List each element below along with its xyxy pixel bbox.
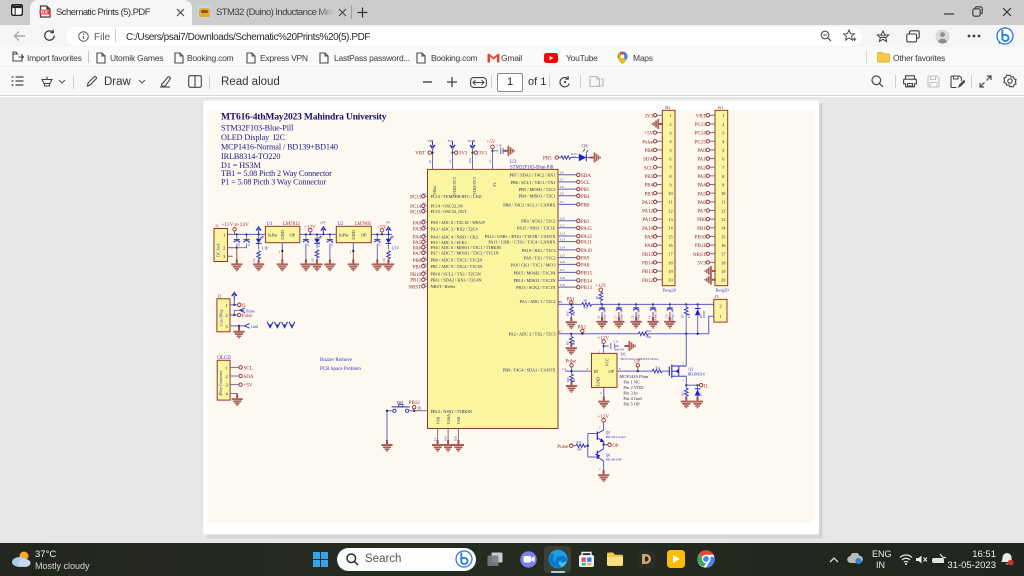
power flag +5V [491, 145, 495, 149]
svg-text:+12V: +12V [304, 224, 316, 230]
svg-text:L10: L10 [560, 217, 565, 221]
svg-text:+12V: +12V [595, 284, 607, 289]
svg-text:PB8 / T4C3 / SCL1 / CANRX: PB8 / T4C3 / SCL1 / CANRX [503, 202, 556, 207]
wire net L7 [558, 181, 577, 183]
port PA12 pin 12 [657, 209, 663, 211]
ground [238, 326, 240, 330]
wire stub [425, 221, 428, 223]
svg-text:PB12: PB12 [642, 279, 654, 284]
svg-text:Pulse: Pulse [557, 445, 569, 450]
svg-text:PB13: PB13 [581, 286, 593, 291]
svg-text:CPU: CPU [582, 145, 589, 149]
capacitor C10 4700uF [669, 303, 671, 305]
svg-text:PA4 / ADC 4 / NSS1 / CK2: PA4 / ADC 4 / NSS1 / CK2 [431, 235, 478, 240]
svg-text:R8: R8 [423, 224, 427, 228]
MCU U3 STM32F103 block [428, 169, 559, 428]
ground [348, 259, 359, 271]
svg-text:3V3: 3V3 [459, 152, 468, 157]
transistor Q6 BD140 [596, 451, 598, 459]
svg-text:Berg20: Berg20 [716, 288, 730, 293]
harpoon arrows row [267, 322, 295, 328]
wire [604, 343, 609, 353]
svg-text:PB9 / T4C4 / SDA1 / CANTX: PB9 / T4C4 / SDA1 / CANTX [503, 368, 557, 373]
right icons [871, 75, 884, 88]
ground [311, 259, 322, 271]
svg-text:PB5 / MOSI1 / T2C2: PB5 / MOSI1 / T2C2 [519, 187, 556, 192]
svg-text:Gnd: Gnd [251, 324, 258, 329]
svg-text:C19: C19 [497, 144, 503, 148]
svg-text:C1: C1 [237, 242, 241, 246]
ground [453, 440, 464, 452]
svg-text:R18: R18 [468, 157, 472, 163]
svg-text:10K: 10K [688, 313, 691, 318]
svg-text:PA2: PA2 [697, 166, 706, 171]
wire stub [425, 246, 428, 248]
svg-text:MCP1416 Plain: MCP1416 Plain [619, 374, 649, 379]
svg-text:2: 2 [720, 303, 722, 308]
svg-text:3V3: 3V3 [644, 114, 653, 119]
svg-text:OP: OP [361, 233, 367, 238]
svg-text:PB0: PB0 [413, 259, 422, 264]
svg-text:OP: OP [609, 369, 615, 374]
svg-text:L12: L12 [560, 232, 565, 236]
svg-text:PB10 / SCL2 / TX3 / T2C3N: PB10 / SCL2 / TX3 / T2C3N [431, 272, 481, 277]
resistor under flag [600, 291, 602, 294]
wire stub [425, 210, 428, 212]
wire OLCD pin4 to ground [230, 394, 237, 398]
transistor Q5 BD139 [596, 432, 598, 440]
svg-text:Pulse: Pulse [246, 308, 255, 313]
svg-text:PA5: PA5 [413, 241, 422, 246]
svg-text:B2: B2 [665, 105, 670, 110]
connector J1 [214, 229, 228, 262]
svg-text:R16: R16 [423, 275, 429, 279]
pdf toolbar [0, 68, 1024, 96]
svg-text:2: 2 [350, 250, 352, 254]
svg-text:R19: R19 [443, 435, 447, 441]
wire net L11 [558, 227, 577, 229]
svg-text:R8: R8 [584, 299, 588, 303]
port PA6 pin 11 [710, 201, 716, 203]
wire net L6 [558, 174, 577, 176]
capacitor C2 [244, 240, 250, 243]
svg-text:PB10: PB10 [695, 236, 707, 241]
resistor source-gnd [685, 385, 687, 388]
svg-text:PA8 / CK1 / T1C1 / MCO: PA8 / CK1 / T1C1 / MCO [511, 262, 556, 267]
svg-text:VSS: VSS [435, 416, 440, 424]
svg-text:PB5: PB5 [644, 175, 653, 180]
svg-text:NRST: NRST [408, 285, 421, 290]
wire OLCD pin1 + port SCL [230, 366, 239, 368]
connector B1 Berg20 [715, 110, 728, 285]
search pill [337, 548, 476, 571]
ground [253, 259, 264, 271]
store [578, 551, 595, 568]
svg-text:VBT: VBT [415, 152, 425, 157]
connector J2 Con 3Way [217, 299, 230, 332]
svg-text:1: 1 [669, 113, 671, 118]
wire J2 pin1 [230, 304, 238, 306]
port PB15 pin 17 [657, 253, 663, 255]
port NRST pin 17 [710, 253, 716, 255]
svg-text:4700uF/16V: 4700uF/16V [638, 309, 641, 322]
port PB4 pin 9 [657, 184, 663, 186]
port SCL pin 7 [657, 166, 663, 168]
port PA11 pin 13 [657, 218, 663, 220]
svg-text:PC15: PC15 [695, 140, 707, 145]
resistor R22 [638, 332, 648, 336]
svg-text:L12V: L12V [317, 239, 321, 247]
port PA15 [577, 226, 580, 229]
svg-text:PA7: PA7 [697, 210, 706, 215]
capacitor C11 [611, 343, 619, 349]
svg-text:R20: R20 [454, 435, 458, 441]
wire net L18 [558, 279, 577, 281]
svg-text:1K: 1K [573, 379, 576, 382]
svg-text:+5V: +5V [244, 384, 253, 389]
svg-text:PCB Space Problem: PCB Space Problem [320, 367, 361, 372]
svg-text:2: 2 [223, 246, 225, 251]
svg-text:L5V: L5V [392, 246, 400, 251]
resistor base [576, 444, 586, 448]
capacitor C6 4700uF [601, 303, 603, 305]
svg-text:10K: 10K [646, 335, 652, 339]
svg-text:PB3 / SCK1 / T2C2: PB3 / SCK1 / T2C2 [521, 219, 555, 224]
wire stub [425, 285, 428, 287]
port IL [238, 303, 241, 306]
svg-text:PC13 / TEMPER-RTC / LED: PC13 / TEMPER-RTC / LED [431, 194, 482, 199]
ground sideways [625, 341, 636, 351]
svg-text:VSS: VSS [456, 416, 461, 424]
wire stub [425, 236, 428, 238]
active tab [30, 0, 192, 25]
svg-text:+12V: +12V [598, 415, 610, 420]
harpoon Pulse [240, 308, 246, 313]
svg-text:MCP1416-Normal / BD139+BD140: MCP1416-Normal / BD139+BD140 [221, 143, 338, 152]
port PB5 [577, 187, 580, 190]
svg-text:1: 1 [226, 365, 228, 370]
svg-text:PB15: PB15 [642, 253, 654, 258]
svg-text:PB0 / ADC 8 / T3C3 / T1C2N: PB0 / ADC 8 / T3C3 / T1C2N [431, 258, 483, 263]
svg-text:PA15 / NSS1 / T2C1E: PA15 / NSS1 / T2C1E [517, 226, 556, 231]
wire U2 output rail [371, 233, 392, 235]
wire J2 pin2 [230, 314, 238, 316]
svg-text:Pin 1 NC: Pin 1 NC [623, 379, 640, 384]
wire stub [425, 252, 428, 254]
wire stub [425, 265, 428, 267]
capacitor C4 [327, 240, 333, 243]
svg-text:R9: R9 [423, 232, 427, 236]
svg-text:MT616-4thMay2023 Mahindra Univ: MT616-4thMay2023 Mahindra University [221, 112, 387, 123]
wire top stub [432, 148, 434, 169]
svg-text:L18: L18 [560, 276, 565, 280]
port PB4 [577, 194, 580, 197]
port PB10 pin 15 [710, 235, 716, 237]
wire net L5 [558, 203, 577, 205]
svg-text:R16: R16 [567, 311, 570, 316]
port PB8 pin 5 [657, 149, 663, 151]
svg-text:SDA: SDA [643, 158, 653, 163]
port 3V3 (second) [474, 151, 477, 154]
svg-text:L8: L8 [560, 185, 564, 189]
chat [520, 551, 537, 568]
port PB12 pin 20 [657, 279, 663, 281]
power flag +12V (driver) [602, 340, 606, 344]
port PA8 pin 16 [657, 244, 663, 246]
capacitor C7 4700uF [618, 303, 620, 305]
svg-text:PB11 / SDA2 / RX3 / T2C4N: PB11 / SDA2 / RX3 / T2C4N [431, 278, 482, 283]
harpoon Gnd [244, 324, 250, 329]
svg-text:PB0: PB0 [697, 218, 706, 223]
svg-text:NRST / ReSet: NRST / ReSet [431, 284, 456, 289]
port PB14 pin 18 [657, 261, 663, 263]
port PA15 pin 11 [657, 201, 663, 203]
svg-text:R4: R4 [423, 207, 427, 211]
svg-text:J2: J2 [218, 294, 222, 299]
wire net L16 [558, 263, 577, 265]
svg-text:PC14: PC14 [410, 205, 422, 210]
edge active [544, 546, 571, 573]
zoom controls [423, 81, 432, 83]
svg-text:PA5 / ADC 5 / SCK1: PA5 / ADC 5 / SCK1 [431, 240, 468, 245]
port PB13 pin 19 [657, 270, 663, 272]
capacitor C1 [234, 240, 240, 243]
svg-text:Berg20: Berg20 [663, 288, 677, 293]
svg-text:J1: J1 [215, 224, 219, 229]
svg-text:PA0: PA0 [413, 221, 422, 226]
svg-text:L1P: L1P [262, 246, 270, 251]
wire OLCD pin2 + port SDA [230, 375, 239, 377]
favourites bar [0, 47, 1024, 67]
svg-text:R6: R6 [559, 300, 563, 304]
svg-text:2: 2 [225, 313, 227, 318]
port PB3 [577, 219, 580, 222]
svg-text:PB7 / SDA1 / T4C2 / RX1: PB7 / SDA1 / T4C2 / RX1 [509, 173, 555, 178]
svg-text:SDA: SDA [244, 375, 254, 380]
svg-text:SDA: SDA [581, 174, 591, 179]
svg-text:Pin 3 In: Pin 3 In [623, 390, 638, 395]
svg-text:PA3: PA3 [413, 228, 422, 233]
svg-text:PA4: PA4 [413, 236, 422, 241]
svg-text:Con 3Way: Con 3Way [218, 309, 223, 326]
svg-text:DC Jack: DC Jack [216, 243, 221, 257]
svg-text:PA8: PA8 [581, 264, 590, 269]
port SDA [577, 173, 580, 176]
svg-text:PA1 / ADC 1 / T2C2: PA1 / ADC 1 / T2C2 [520, 299, 556, 304]
svg-text:2: 2 [722, 122, 724, 127]
wire net L15 [558, 257, 577, 259]
svg-text:PB5: PB5 [543, 157, 552, 162]
start [313, 552, 328, 567]
svg-text:U1: U1 [267, 222, 273, 227]
transistor Q1 IRLB8314 MOSFET [668, 367, 670, 376]
svg-text:PA1: PA1 [567, 297, 576, 302]
svg-text:PB14: PB14 [642, 262, 654, 267]
svg-text:PA3 / ADC 3 / RX2 / T2C4: PA3 / ADC 3 / RX2 / T2C4 [431, 226, 479, 231]
svg-text:R22: R22 [646, 329, 652, 333]
svg-text:10R: 10R [577, 448, 582, 452]
port PC15 pin 4 [710, 140, 716, 142]
wire net L14 [558, 249, 577, 251]
svg-text:PB5: PB5 [581, 188, 590, 193]
resistor gate [652, 369, 662, 373]
ground [231, 259, 242, 271]
svg-text:1: 1 [225, 303, 227, 308]
svg-text:PA7: PA7 [413, 252, 422, 257]
port PB5 pin 8 [657, 175, 663, 177]
svg-text:PA7 / ADC 7 / MOSI1 / T3C2 / T: PA7 / ADC 7 / MOSI1 / T3C2 / T1C1N [431, 251, 499, 256]
svg-text:4700uF/16V: 4700uF/16V [604, 309, 607, 322]
resistor R21 [561, 156, 571, 160]
capacitor C19 [493, 148, 507, 154]
svg-text:PA8: PA8 [645, 244, 654, 249]
resistor to ground under Pulse [570, 374, 574, 382]
regulator U2 LM7805 [336, 226, 371, 242]
svg-text:GND: GND [351, 230, 356, 239]
power flag +15V to 24V [233, 228, 237, 232]
svg-text:L9: L9 [560, 191, 564, 195]
port 3V3 (first) [455, 151, 458, 154]
svg-text:10K: 10K [573, 311, 576, 316]
svg-text:PC13: PC13 [695, 123, 707, 128]
svg-text:R18: R18 [567, 377, 570, 382]
svg-text:PA15: PA15 [642, 201, 653, 206]
svg-text:+15V to 24V: +15V to 24V [222, 222, 250, 228]
svg-text:L11: L11 [560, 224, 565, 228]
svg-text:4700uF/16V: 4700uF/16V [671, 309, 674, 322]
wire PA2 net [558, 316, 714, 334]
wire net L10 [558, 220, 577, 222]
pdf page [204, 101, 823, 539]
svg-text:PA9 / TX1 / T1C2: PA9 / TX1 / T1C2 [524, 256, 555, 261]
task view [487, 552, 503, 567]
port PA0 pin 5 [710, 149, 716, 151]
resistor to ground under PA1 [570, 304, 572, 306]
wire base rail [586, 434, 597, 458]
port 3V3 pin 1 [657, 114, 663, 116]
svg-text:L13: L13 [560, 237, 565, 241]
svg-text:OP: OP [290, 233, 296, 238]
svg-text:U2: U2 [338, 222, 344, 227]
LED L5V [386, 236, 394, 243]
wire stub [425, 273, 428, 275]
svg-text:PA9: PA9 [581, 257, 590, 262]
power arrow port 5V [386, 227, 391, 235]
wire switch left to ground [387, 411, 393, 444]
svg-text:C2: C2 [247, 242, 251, 246]
ground [372, 259, 383, 271]
svg-text:PB4: PB4 [581, 195, 590, 200]
svg-text:20: 20 [417, 406, 421, 410]
svg-text:IRLB8314-TO220: IRLB8314-TO220 [221, 152, 280, 161]
wire net L8 [558, 188, 577, 190]
wire stub [425, 227, 428, 229]
svg-text:IL: IL [704, 384, 709, 389]
wire source node [685, 384, 700, 386]
power arrow port 12V [321, 227, 326, 235]
ground (sideways) pin 2 [659, 123, 662, 125]
svg-text:5V: 5V [386, 221, 391, 225]
svg-text:OLED Display I2C: OLED Display I2C [221, 133, 286, 142]
explorer [606, 551, 624, 567]
port PB1 pin 14 [710, 227, 716, 229]
svg-text:L6: L6 [560, 171, 564, 175]
wire stub [425, 195, 428, 197]
wire stub [425, 259, 428, 261]
svg-text:+12V: +12V [598, 336, 610, 341]
svg-text:PA0: PA0 [697, 149, 706, 154]
ground (sideways) pin 19 [712, 270, 715, 272]
power arrow 3V3B [470, 141, 475, 149]
port PA12 [577, 234, 580, 237]
svg-text:U3: U3 [510, 160, 517, 165]
svg-text:4Way Connector: 4Way Connector [219, 370, 223, 396]
wire U1 to U2 rail [300, 233, 337, 235]
power arrow 3V3 [450, 141, 455, 149]
driver U6 MCP1416 [592, 353, 618, 387]
svg-text:PA3: PA3 [697, 175, 706, 180]
svg-text:942: 942 [584, 306, 589, 310]
power arrow VBT [430, 141, 435, 149]
svg-text:PC15: PC15 [410, 210, 422, 215]
weather widget [11, 550, 31, 568]
port SDA pin 6 [657, 158, 663, 160]
svg-text:STM32F103-Blue-Pill: STM32F103-Blue-Pill [221, 124, 294, 133]
svg-text:B1: B1 [718, 105, 723, 110]
svg-text:3V3: 3V3 [448, 139, 454, 143]
svg-text:R1: R1 [428, 159, 432, 163]
power flag +5V [380, 228, 384, 232]
svg-text:VCC: VCC [605, 358, 610, 367]
svg-text:PB14 / MISO2 / T1C2N: PB14 / MISO2 / T1C2N [514, 278, 556, 283]
svg-text:PB8: PB8 [581, 204, 590, 209]
power arrow port [256, 227, 261, 235]
svg-text:D2: D2 [700, 392, 703, 396]
ground [443, 440, 454, 452]
svg-text:U6: U6 [621, 352, 626, 357]
svg-text:BD139-Leaded: BD139-Leaded [606, 435, 626, 439]
chrome [697, 550, 715, 568]
svg-text:PC14: PC14 [695, 132, 707, 137]
port Pulse [238, 313, 241, 316]
port PA11 [577, 240, 580, 243]
svg-text:SCL: SCL [644, 166, 653, 171]
dark app [637, 550, 655, 568]
LED L1P [256, 236, 264, 243]
wire U6 gnd [603, 387, 605, 400]
wire OP [617, 370, 652, 372]
resistor R3 [387, 251, 391, 259]
port VBT [428, 151, 431, 154]
svg-text:PA5: PA5 [697, 192, 706, 197]
schematic drawing groups inserted below [221, 112, 387, 373]
svg-text:GND: GND [596, 377, 601, 386]
svg-text:C4: C4 [330, 242, 334, 246]
wire [571, 157, 579, 159]
svg-text:Pin 4 Gnd: Pin 4 Gnd [623, 396, 642, 401]
wire U2 gnd pin [352, 243, 354, 252]
capacitor C5 [374, 240, 380, 243]
svg-text:L7: L7 [560, 178, 564, 182]
svg-text:PB4: PB4 [644, 184, 653, 189]
window controls [944, 9, 954, 19]
wire J1 pin2 [228, 247, 237, 249]
wire VSS pin [437, 429, 439, 444]
svg-text:NRST: NRST [693, 253, 706, 258]
power flag +12V [599, 288, 603, 292]
zoom indicator + add favourite inside pill [820, 30, 832, 42]
svg-text:PB14: PB14 [581, 279, 593, 284]
